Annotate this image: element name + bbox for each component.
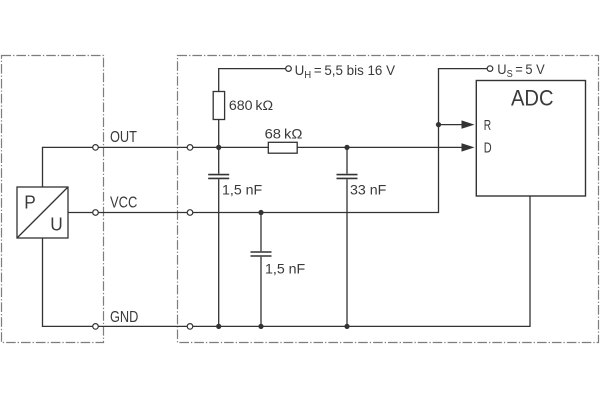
junction node R arrow [436, 122, 441, 127]
wire GND net [43, 196, 531, 326]
sensor dashed box [2, 56, 104, 343]
svg-text:GND: GND [110, 309, 138, 326]
terminal GND sensor side [93, 324, 99, 330]
svg-text:P: P [24, 192, 36, 213]
ADC box U1 [476, 81, 585, 197]
svg-text:68 kΩ: 68 kΩ [265, 127, 303, 143]
svg-text:U: U [50, 214, 62, 235]
capacitor C1 1,5nF plates [208, 175, 229, 179]
terminal US supply [487, 66, 493, 72]
svg-text:D: D [484, 139, 492, 156]
junction node GND/C1 [216, 324, 221, 329]
svg-text:33 nF: 33 nF [350, 182, 387, 198]
svg-text:VCC: VCC [110, 195, 137, 212]
terminal OUT ECU side [187, 145, 193, 151]
terminal GND ECU side [187, 324, 193, 330]
wire OUT net [43, 147, 464, 187]
svg-text:R: R [484, 118, 491, 134]
arrowhead into R pin [462, 120, 475, 128]
junction node GND/C2 [344, 324, 349, 329]
resistor R1 680k [213, 92, 224, 120]
sensor symbol box [17, 187, 68, 238]
ECU dashed box [178, 56, 599, 343]
terminal OUT sensor side [93, 145, 99, 151]
wire VCC net [68, 69, 487, 213]
wire capacitor C1 column [218, 147, 220, 326]
resistor R2 68k [268, 142, 297, 153]
svg-text:1,5 nF: 1,5 nF [265, 261, 306, 277]
capacitor C2 33nF plates [337, 175, 358, 179]
svg-text:680 kΩ: 680 kΩ [229, 98, 273, 114]
junction node OUT/C2 [344, 145, 349, 150]
svg-text:ADC: ADC [511, 87, 554, 111]
junction node VCC/C3 [258, 210, 263, 215]
junction node GND/C3 [258, 324, 263, 329]
svg-text:1,5 nF: 1,5 nF [222, 182, 263, 198]
terminal VCC ECU side [187, 210, 193, 216]
arrowhead into D pin [462, 143, 475, 151]
capacitor C3 1,5nF plates [251, 252, 272, 256]
wire capacitor C3 column [260, 213, 262, 327]
terminal UH supply [286, 66, 292, 72]
terminal VCC sensor side [93, 210, 99, 216]
wire capacitor C2 column [346, 147, 348, 326]
junction node OUT/R1/C1 [216, 145, 221, 150]
svg-text:OUT: OUT [110, 129, 137, 146]
wire UH branch [219, 69, 286, 148]
wire R arrow shaft [439, 124, 464, 126]
